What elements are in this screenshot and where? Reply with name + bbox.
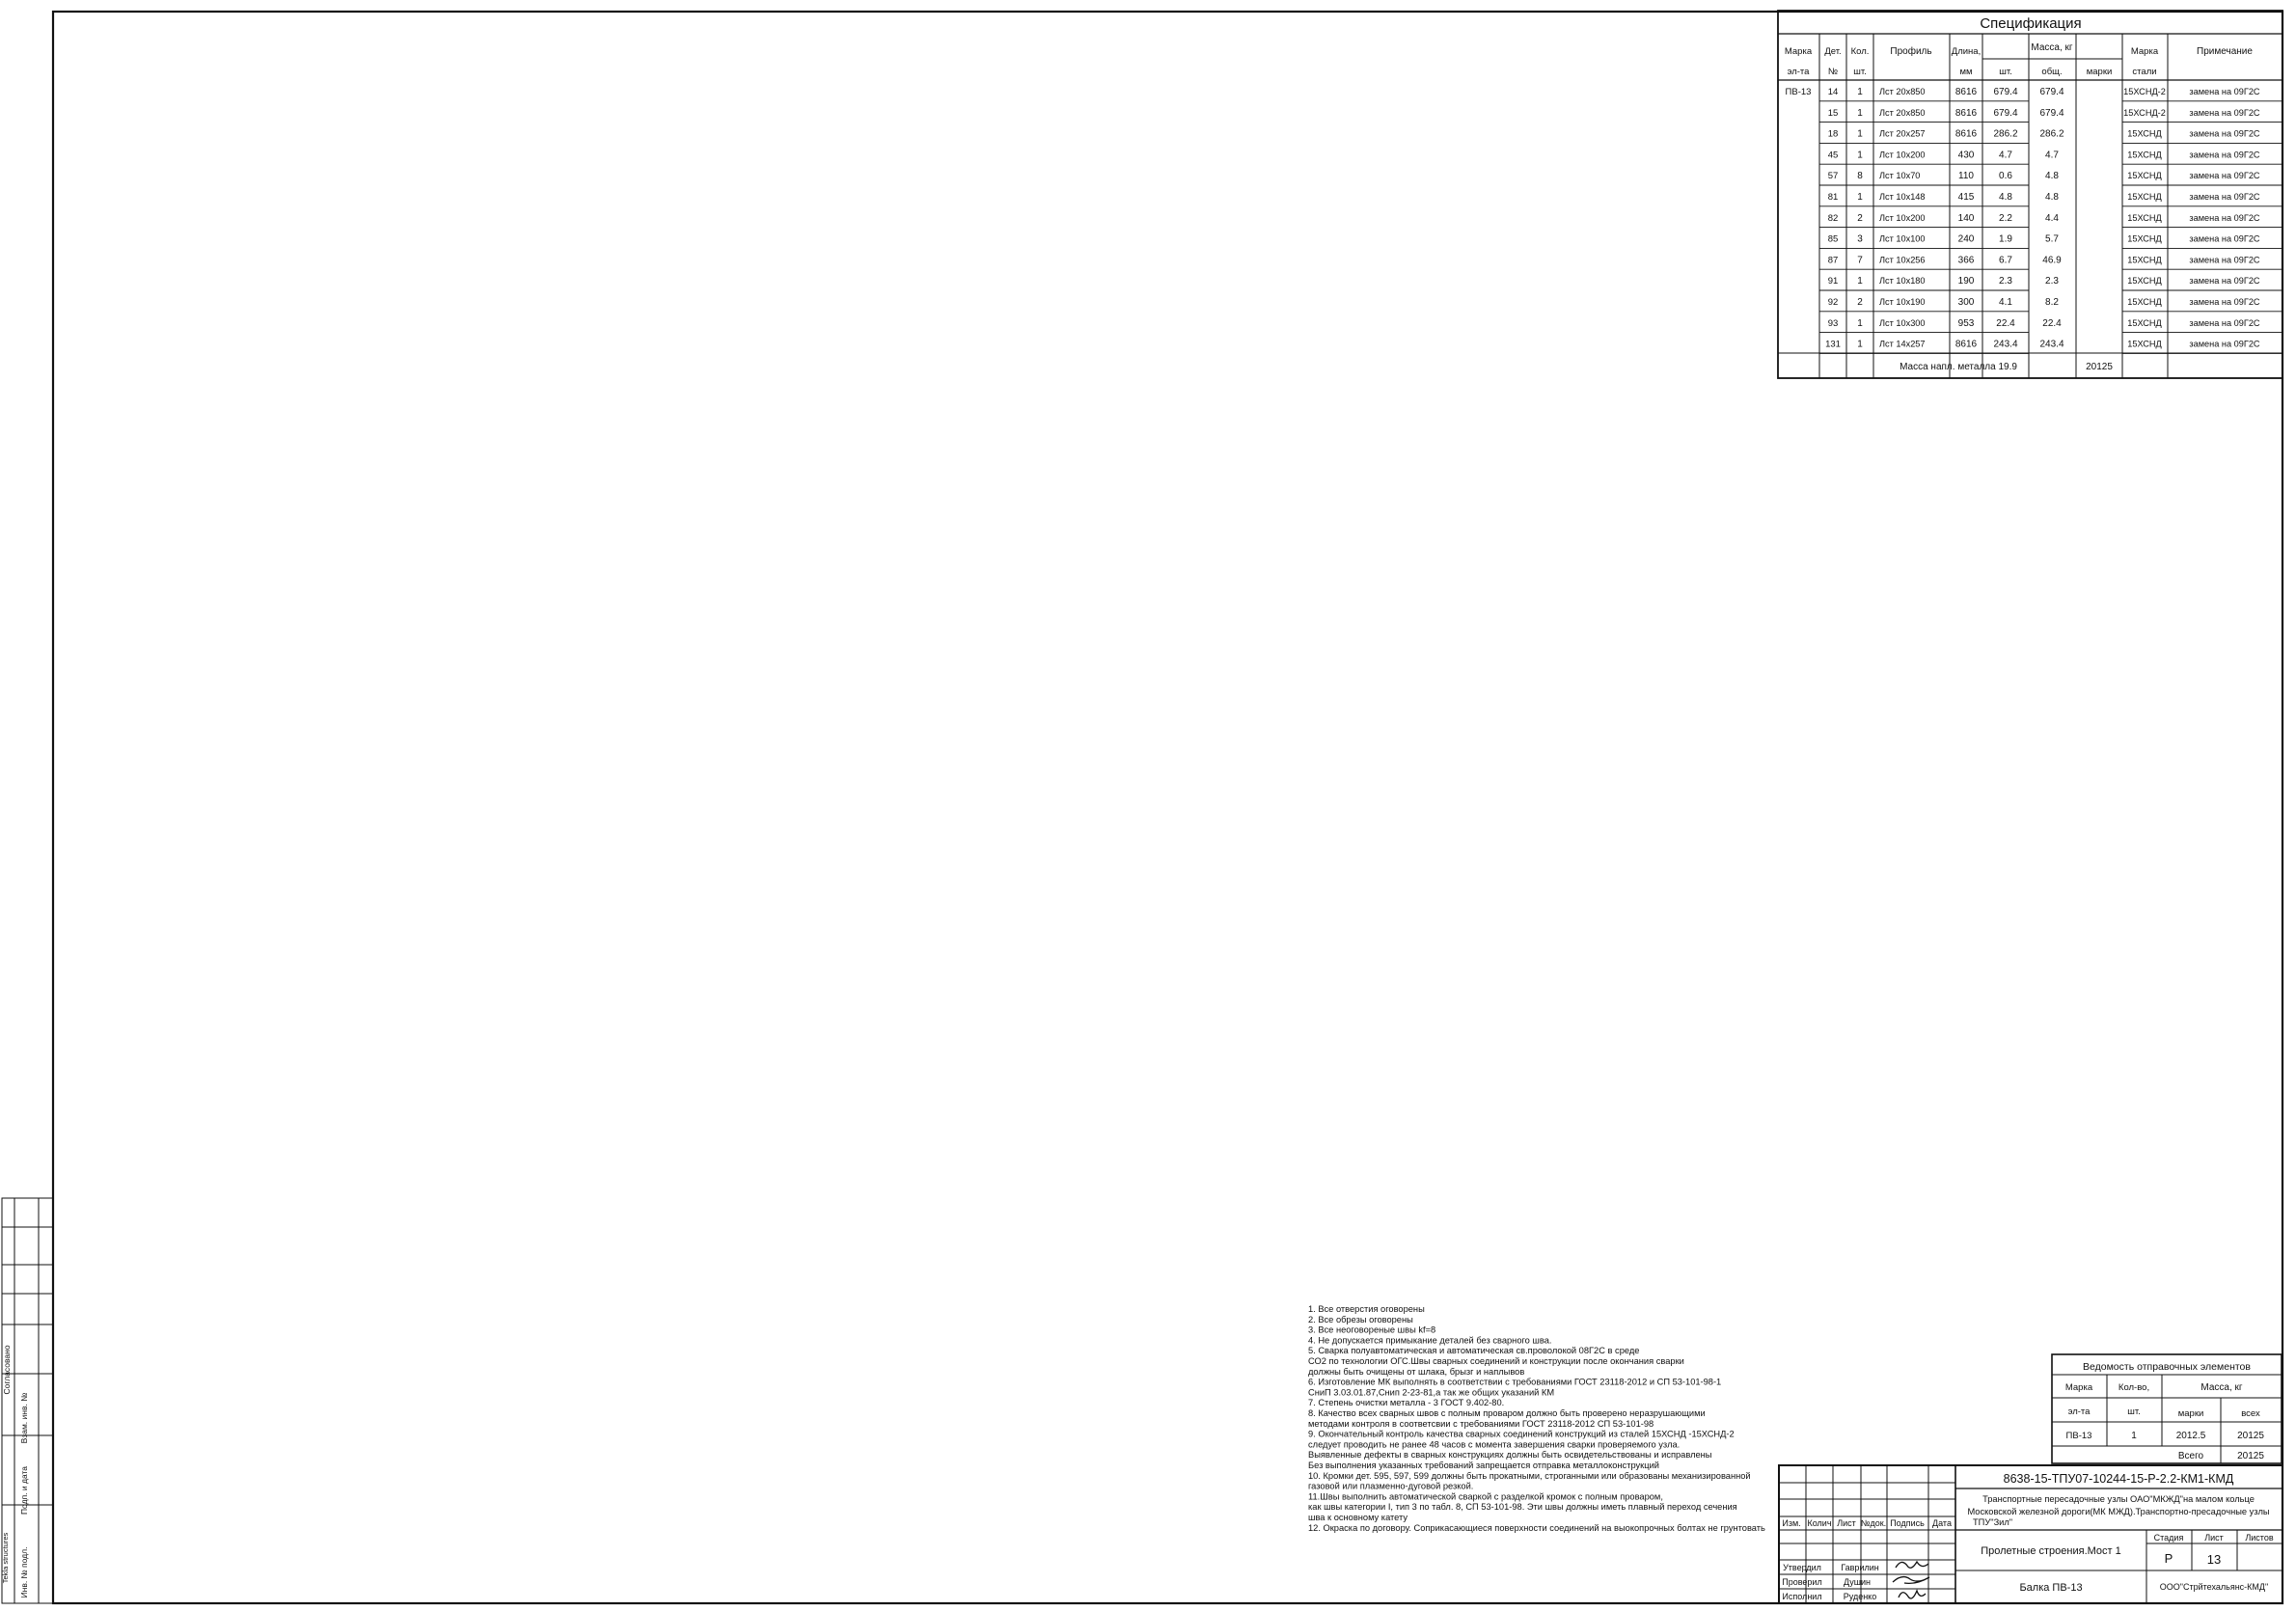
svg-text:300: 300	[1958, 297, 1975, 308]
svg-text:2012.5: 2012.5	[2176, 1431, 2206, 1441]
svg-text:131: 131	[1825, 340, 1841, 350]
svg-text:6. Изготовление МК выполнять в: 6. Изготовление МК выполнять в соответст…	[1308, 1378, 1721, 1387]
svg-text:57: 57	[1828, 171, 1839, 181]
svg-text:замена на 09Г2С: замена на 09Г2С	[2189, 234, 2260, 244]
svg-text:Лист: Лист	[1837, 1518, 1856, 1528]
svg-text:8.2: 8.2	[2045, 297, 2059, 308]
svg-text:10. Кромки дет. 595, 597, 599: 10. Кромки дет. 595, 597, 599 должны быт…	[1308, 1471, 1751, 1481]
svg-text:ПВ-13: ПВ-13	[1786, 87, 1812, 97]
svg-text:Лст 10х256: Лст 10х256	[1879, 255, 1926, 264]
svg-text:СО2 по технологии ОГС.Швы свар: СО2 по технологии ОГС.Швы сварных соедин…	[1308, 1356, 1684, 1366]
svg-text:953: 953	[1958, 318, 1975, 329]
svg-text:мм: мм	[1959, 67, 1972, 77]
svg-text:20125: 20125	[2237, 1431, 2264, 1441]
svg-text:8: 8	[1857, 171, 1863, 181]
svg-text:13: 13	[2207, 1552, 2221, 1567]
svg-text:15: 15	[1828, 108, 1839, 119]
svg-text:4.7: 4.7	[1999, 150, 2012, 160]
svg-text:3. Все неоговореные швы kf=8: 3. Все неоговореные швы kf=8	[1308, 1325, 1435, 1335]
svg-text:1: 1	[1857, 150, 1863, 160]
svg-text:методами контроля в соответсви: методами контроля в соответсвии с требов…	[1308, 1419, 1654, 1429]
svg-text:430: 430	[1958, 150, 1975, 160]
svg-text:замена на 09Г2С: замена на 09Г2С	[2189, 297, 2260, 307]
svg-text:Пролетные строения.Мост 1: Пролетные строения.Мост 1	[1981, 1545, 2121, 1557]
svg-text:243.4: 243.4	[1993, 340, 2017, 350]
svg-text:Дет.: Дет.	[1824, 46, 1841, 57]
svg-text:1: 1	[1857, 108, 1863, 119]
svg-text:2: 2	[1857, 297, 1863, 308]
svg-text:4.7: 4.7	[2045, 150, 2059, 160]
svg-text:Колич: Колич	[1807, 1518, 1831, 1528]
svg-text:7. Степень очистки металла - 3: 7. Степень очистки металла - 3 ГОСТ 9.40…	[1308, 1398, 1504, 1407]
svg-text:замена на 09Г2С: замена на 09Г2С	[2189, 318, 2260, 328]
svg-text:91: 91	[1828, 276, 1839, 287]
svg-text:Дата: Дата	[1932, 1518, 1952, 1528]
svg-text:15ХСНД: 15ХСНД	[2127, 129, 2162, 139]
title block	[1779, 1465, 2282, 1603]
svg-text:8616: 8616	[1955, 129, 1978, 140]
svg-text:Листов: Листов	[2245, 1533, 2273, 1543]
svg-text:Марка: Марка	[2131, 46, 2159, 57]
svg-text:Лст 10х148: Лст 10х148	[1879, 192, 1926, 202]
svg-text:20125: 20125	[2086, 362, 2113, 372]
svg-text:СниП 3.03.01.87,Снип 2-23-81,а: СниП 3.03.01.87,Снип 2-23-81,а так же об…	[1308, 1387, 1554, 1397]
svg-text:шт.: шт.	[2127, 1406, 2141, 1417]
svg-text:ПВ-13: ПВ-13	[2066, 1431, 2092, 1441]
svg-text:Душин: Душин	[1844, 1577, 1871, 1587]
svg-text:1: 1	[1857, 129, 1863, 140]
svg-text:шт.: шт.	[1853, 67, 1867, 77]
svg-text:Взам. инв. №: Взам. инв. №	[19, 1393, 29, 1444]
svg-text:679.4: 679.4	[1993, 108, 2017, 119]
svg-text:11.Швы выполнить автоматическо: 11.Швы выполнить автоматической сваркой …	[1308, 1491, 1663, 1501]
svg-text:15ХСНД: 15ХСНД	[2127, 192, 2162, 202]
svg-text:1: 1	[1857, 276, 1863, 287]
svg-text:замена на 09Г2С: замена на 09Г2С	[2189, 108, 2260, 118]
svg-text:82: 82	[1828, 213, 1839, 224]
svg-text:№: №	[1828, 67, 1838, 77]
svg-text:45: 45	[1828, 150, 1839, 160]
svg-text:Tekla structures: Tekla structures	[1, 1532, 10, 1583]
svg-text:Московской железной дороги(МК: Московской железной дороги(МК МЖД).Транс…	[1967, 1507, 2269, 1516]
svg-text:Проверил: Проверил	[1782, 1577, 1821, 1587]
svg-text:Примечание: Примечание	[2197, 46, 2253, 57]
svg-text:Р: Р	[2165, 1551, 2173, 1566]
svg-text:Балка ПВ-13: Балка ПВ-13	[2019, 1582, 2082, 1594]
svg-text:эл-та: эл-та	[2068, 1406, 2091, 1417]
svg-text:2.2: 2.2	[1999, 213, 2012, 224]
svg-text:7: 7	[1857, 255, 1863, 265]
svg-text:5. Сварка полуавтоматическая и: 5. Сварка полуавтоматическая и автоматич…	[1308, 1346, 1639, 1355]
title block doc number	[1955, 1488, 2282, 1489]
svg-text:Лст 10х300: Лст 10х300	[1879, 318, 1926, 328]
svg-text:Масса, кг: Масса, кг	[2031, 42, 2072, 53]
svg-text:Масса напл. металла 19.9: Масса напл. металла 19.9	[1900, 362, 2017, 372]
svg-text:15ХСНД-2: 15ХСНД-2	[2123, 108, 2166, 118]
svg-text:81: 81	[1828, 192, 1839, 203]
svg-text:15ХСНД: 15ХСНД	[2127, 171, 2162, 180]
svg-text:92: 92	[1828, 297, 1839, 308]
svg-text:замена на 09Г2С: замена на 09Г2С	[2189, 87, 2260, 96]
svg-text:46.9: 46.9	[2042, 255, 2062, 265]
svg-text:22.4: 22.4	[2042, 318, 2062, 329]
svg-text:должны быть очищены от шлака,: должны быть очищены от шлака, брызг и на…	[1308, 1367, 1524, 1377]
svg-text:679.4: 679.4	[2039, 87, 2064, 97]
svg-text:Лст 14х257: Лст 14х257	[1879, 340, 1926, 349]
svg-text:22.4: 22.4	[1996, 318, 2015, 329]
svg-text:8616: 8616	[1955, 340, 1978, 350]
svg-text:366: 366	[1958, 255, 1975, 265]
svg-text:замена на 09Г2С: замена на 09Г2С	[2189, 150, 2260, 159]
signatures	[1896, 1562, 1928, 1568]
svg-text:стали: стали	[2132, 67, 2156, 77]
svg-text:замена на 09Г2С: замена на 09Г2С	[2189, 213, 2260, 223]
svg-text:14: 14	[1828, 87, 1839, 97]
svg-text:85: 85	[1828, 234, 1839, 245]
svg-text:110: 110	[1958, 171, 1974, 181]
svg-text:ТПУ"Зил": ТПУ"Зил"	[1973, 1517, 2012, 1527]
svg-text:Масса, кг: Масса, кг	[2200, 1382, 2242, 1393]
svg-text:679.4: 679.4	[1993, 87, 2017, 97]
svg-text:Ведомость отправочных элементо: Ведомость отправочных элементов	[2083, 1361, 2251, 1373]
svg-text:0.6: 0.6	[1999, 171, 2012, 181]
svg-text:№док.: №док.	[1861, 1518, 1886, 1528]
svg-text:2. Все обрезы оговорены: 2. Все обрезы оговорены	[1308, 1315, 1413, 1324]
svg-text:Профиль: Профиль	[1890, 45, 1931, 57]
svg-text:5.7: 5.7	[2045, 234, 2059, 245]
svg-text:4.1: 4.1	[1999, 297, 2012, 308]
svg-text:Изм.: Изм.	[1782, 1518, 1800, 1528]
svg-text:Лст 20х850: Лст 20х850	[1879, 108, 1926, 118]
svg-text:4. Не допускается примыкание д: 4. Не допускается примыкание деталей без…	[1308, 1335, 1551, 1345]
svg-text:Длина,: Длина,	[1952, 46, 1981, 57]
svg-text:Гаврилин: Гаврилин	[1841, 1563, 1878, 1572]
svg-text:Лст 10х180: Лст 10х180	[1879, 276, 1926, 286]
svg-text:240: 240	[1958, 234, 1975, 245]
svg-text:Согласовано: Согласовано	[2, 1345, 12, 1394]
svg-text:Марка: Марка	[1785, 46, 1813, 57]
svg-text:Подпись: Подпись	[1890, 1518, 1925, 1528]
svg-text:ООО"Стрйтехальянс-КМД": ООО"Стрйтехальянс-КМД"	[2160, 1582, 2268, 1592]
svg-text:Исполнил: Исполнил	[1782, 1592, 1821, 1601]
svg-text:286.2: 286.2	[2039, 129, 2064, 140]
svg-text:9. Окончательный контроль каче: 9. Окончательный контроль качества сварн…	[1308, 1430, 1735, 1439]
svg-text:679.4: 679.4	[2039, 108, 2064, 119]
svg-text:243.4: 243.4	[2039, 340, 2064, 350]
svg-text:Лст 10х200: Лст 10х200	[1879, 150, 1926, 159]
svg-text:замена на 09Г2С: замена на 09Г2С	[2189, 276, 2260, 286]
svg-text:286.2: 286.2	[1993, 129, 2017, 140]
svg-text:Спецификация: Спецификация	[1980, 15, 2081, 32]
svg-text:4.4: 4.4	[2045, 213, 2059, 224]
svg-text:8616: 8616	[1955, 87, 1978, 97]
svg-text:1: 1	[1857, 87, 1863, 97]
svg-text:4.8: 4.8	[2045, 171, 2059, 181]
specification table	[1778, 11, 2282, 378]
svg-text:Лст 20х257: Лст 20х257	[1879, 129, 1926, 139]
svg-text:Кол.: Кол.	[1851, 46, 1870, 57]
svg-text:марки: марки	[2087, 67, 2113, 77]
svg-text:Лст 10х100: Лст 10х100	[1879, 234, 1926, 244]
spec table footer	[1778, 352, 2282, 354]
svg-text:15ХСНД: 15ХСНД	[2127, 276, 2162, 286]
svg-text:12. Окраска по договору. Сопри: 12. Окраска по договору. Соприкасающиеся…	[1308, 1523, 1765, 1533]
spec table rows	[1819, 100, 2029, 102]
svg-text:8616: 8616	[1955, 108, 1978, 119]
svg-text:замена на 09Г2С: замена на 09Г2С	[2189, 129, 2260, 139]
svg-text:15ХСНД: 15ХСНД	[2127, 234, 2162, 244]
svg-text:15ХСНД: 15ХСНД	[2127, 340, 2162, 349]
svg-text:4.8: 4.8	[1999, 192, 2012, 203]
svg-text:марки: марки	[2178, 1408, 2204, 1419]
svg-text:следует проводить не ранее 48: следует проводить не ранее 48 часов с мо…	[1308, 1439, 1680, 1449]
svg-text:20125: 20125	[2237, 1451, 2264, 1461]
svg-text:Лист: Лист	[2204, 1533, 2224, 1543]
svg-text:Марка: Марка	[2065, 1382, 2093, 1393]
svg-text:15ХСНД: 15ХСНД	[2127, 318, 2162, 328]
svg-text:как швы категории I, тип 3 по: как швы категории I, тип 3 по табл. 8, С…	[1308, 1502, 1737, 1512]
svg-text:замена на 09Г2С: замена на 09Г2С	[2189, 192, 2260, 202]
svg-text:3: 3	[1857, 234, 1863, 245]
svg-text:15ХСНД: 15ХСНД	[2127, 297, 2162, 307]
svg-text:6.7: 6.7	[1999, 255, 2012, 265]
left margin stamp column	[2, 1198, 53, 1603]
svg-text:8. Качество всех сварных швов: 8. Качество всех сварных швов с полным п…	[1308, 1408, 1706, 1418]
svg-text:140: 140	[1958, 213, 1975, 224]
svg-text:2.3: 2.3	[2045, 276, 2059, 287]
svg-text:15ХСНД-2: 15ХСНД-2	[2123, 87, 2166, 96]
svg-text:Транспортные пересадочные узлы: Транспортные пересадочные узлы ОАО"МКЖД"…	[1982, 1494, 2255, 1504]
svg-text:Инв. № подл.: Инв. № подл.	[19, 1547, 29, 1598]
svg-text:шт.: шт.	[1999, 67, 2012, 77]
svg-text:1: 1	[1857, 340, 1863, 350]
svg-text:Утвердил: Утвердил	[1783, 1563, 1821, 1572]
svg-text:Лст 20х850: Лст 20х850	[1879, 87, 1926, 96]
svg-text:Стадия: Стадия	[2154, 1533, 2184, 1543]
vedomost table	[2052, 1354, 2282, 1463]
svg-text:1: 1	[2131, 1431, 2137, 1441]
svg-text:Кол-во,: Кол-во,	[2118, 1382, 2149, 1393]
svg-text:15ХСНД: 15ХСНД	[2127, 150, 2162, 159]
svg-text:190: 190	[1958, 276, 1975, 287]
svg-text:4.8: 4.8	[2045, 192, 2059, 203]
svg-text:общ.: общ.	[2041, 67, 2062, 77]
svg-text:2.3: 2.3	[1999, 276, 2012, 287]
svg-text:замена на 09Г2С: замена на 09Г2С	[2189, 340, 2260, 349]
svg-text:Подп. и дата: Подп. и дата	[19, 1466, 29, 1515]
svg-text:Руденко: Руденко	[1844, 1592, 1876, 1601]
svg-text:93: 93	[1828, 318, 1839, 329]
svg-text:замена на 09Г2С: замена на 09Г2С	[2189, 171, 2260, 180]
svg-text:эл-та: эл-та	[1788, 67, 1811, 77]
svg-text:18: 18	[1828, 129, 1839, 140]
svg-text:8638-15-ТПУ07-10244-15-Р-2.2-К: 8638-15-ТПУ07-10244-15-Р-2.2-КМ1-КМД	[2004, 1472, 2234, 1486]
svg-text:1.9: 1.9	[1999, 234, 2012, 245]
svg-text:газовой или плазменно-дуговой: газовой или плазменно-дуговой резкой.	[1308, 1482, 1473, 1491]
svg-text:Лст 10х70: Лст 10х70	[1879, 171, 1920, 180]
svg-text:1: 1	[1857, 318, 1863, 329]
svg-text:2: 2	[1857, 213, 1863, 224]
svg-text:Лст 10х190: Лст 10х190	[1879, 297, 1926, 307]
svg-text:87: 87	[1828, 255, 1839, 265]
svg-text:15ХСНД: 15ХСНД	[2127, 255, 2162, 264]
svg-text:Без выполнения указанных требо: Без выполнения указанных требований запр…	[1308, 1461, 1659, 1470]
svg-text:Всего: Всего	[2178, 1451, 2204, 1461]
svg-text:1: 1	[1857, 192, 1863, 203]
svg-text:Лст 10х200: Лст 10х200	[1879, 213, 1926, 223]
svg-text:1. Все отверстия оговорены: 1. Все отверстия оговорены	[1308, 1304, 1425, 1314]
svg-text:15ХСНД: 15ХСНД	[2127, 213, 2162, 223]
svg-text:415: 415	[1958, 192, 1975, 203]
svg-text:всех: всех	[2241, 1408, 2260, 1419]
svg-text:замена на 09Г2С: замена на 09Г2С	[2189, 255, 2260, 264]
svg-text:шва к основному катету: шва к основному катету	[1308, 1513, 1408, 1522]
svg-text:Выявленные дефекты в сварных к: Выявленные дефекты в сварных конструкция…	[1308, 1450, 1712, 1460]
